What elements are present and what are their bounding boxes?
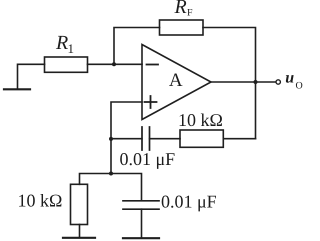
resistor 10k (shunt): [71, 184, 88, 224]
wire: noninverting input down: [111, 102, 142, 174]
label R1: [55, 32, 74, 56]
wire: bottom junction to shunt resistor: [80, 174, 112, 185]
svg-text:A: A: [169, 70, 183, 91]
resistor R1: [45, 57, 88, 72]
node: bottom junction: [109, 172, 113, 176]
wire: R1 to inverting input: [88, 63, 143, 65]
svg-text:1: 1: [68, 41, 75, 56]
resistor 10k (series): [180, 130, 223, 147]
wire: op-amp output: [211, 81, 275, 83]
svg-text:u: u: [285, 70, 294, 87]
op-amp triangle body: [142, 45, 211, 120]
node: inverting input junction: [112, 62, 116, 66]
svg-text:O: O: [296, 81, 303, 92]
svg-text:R: R: [174, 0, 187, 18]
capacitor C2: [123, 201, 159, 209]
wire: C1 to series resistor: [150, 138, 180, 140]
wire: junction up to RF: [114, 28, 160, 65]
op-amp A: [142, 45, 211, 120]
inverting input marker (minus): [147, 64, 159, 66]
ground (shunt resistor): [63, 237, 95, 239]
resistor RF: [160, 20, 204, 35]
label RF: [174, 0, 194, 19]
wire: RF to right branch: [203, 28, 256, 139]
noninverting input marker (plus): [145, 96, 157, 108]
wire: junction to C1: [111, 138, 142, 140]
svg-text:F: F: [187, 8, 193, 19]
wire: left ground stem to R1: [18, 64, 45, 89]
wire: bottom junction to C2: [111, 174, 142, 201]
wire: C2 to ground: [141, 209, 143, 237]
capacitor C1: [142, 127, 150, 150]
svg-text:10 kΩ: 10 kΩ: [178, 110, 223, 130]
wire: series resistor to output branch: [223, 138, 255, 140]
terminal uO (open circle): [276, 80, 280, 84]
wire: shunt resistor to ground: [79, 225, 81, 238]
label uO: [285, 70, 302, 92]
svg-text:R: R: [55, 32, 68, 54]
svg-text:10 kΩ: 10 kΩ: [18, 191, 63, 211]
ground (left input): [4, 88, 30, 90]
node: output junction: [254, 80, 258, 84]
svg-text:0.01 μF: 0.01 μF: [120, 149, 176, 169]
ground (C2): [123, 237, 159, 239]
node: noninverting/C1 junction: [109, 137, 113, 141]
svg-text:0.01 μF: 0.01 μF: [161, 192, 217, 212]
